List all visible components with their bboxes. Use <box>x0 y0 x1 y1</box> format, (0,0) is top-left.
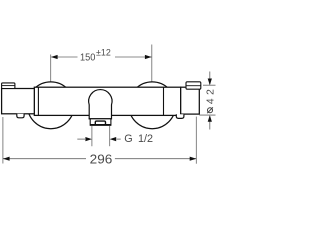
svg-text:G1/2: G1/2 <box>124 133 153 145</box>
svg-text:±12: ±12 <box>96 48 111 58</box>
svg-text:296: 296 <box>90 151 113 166</box>
svg-text:150: 150 <box>80 52 96 63</box>
